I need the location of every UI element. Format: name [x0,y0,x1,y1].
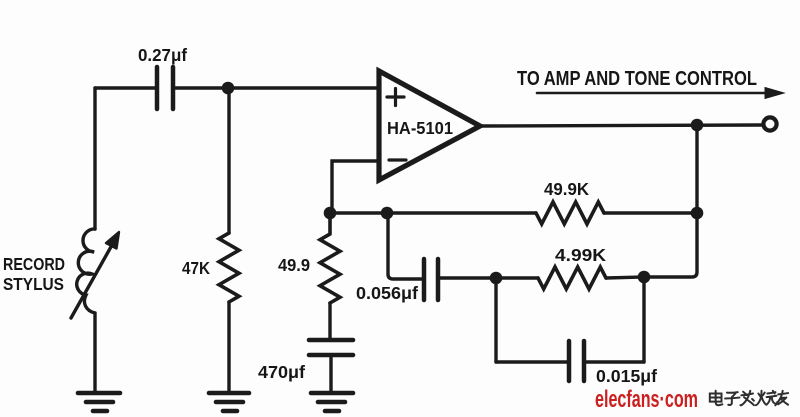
capacitor C2 470uf plates [309,340,353,355]
ground G3 under 470uf [311,393,353,411]
svg-text:0.015μf: 0.015μf [596,366,657,386]
svg-text:470μf: 470μf [258,362,305,382]
wire: 0.056uf cap to 4.99K [439,276,538,279]
capacitor C1 0.27uf plates [157,67,173,109]
wire: minus input to feedback node [332,161,379,213]
resistor R4 4.99K horizontal zigzag [538,267,606,289]
wire: feedback rail y=213 [330,211,536,214]
svg-text:0.27μf: 0.27μf [138,45,187,65]
wire: 49.9K to right vertical [604,211,697,214]
svg-text:elecfans·com: elecfans·com [595,386,698,413]
wire: 0.015uf branch bottom left [496,360,567,363]
wire: 0.015uf branch left vertical [494,278,497,362]
ground G1 under stylus [78,393,120,411]
capacitor C4 0.015uf plates [569,341,584,381]
node: feedback right [691,207,704,220]
wire: top rail y=88 left of capacitor [95,86,156,89]
wire: tap down to 0.056uf cap [388,213,422,279]
node: 4.99K right [638,271,651,284]
svg-text:4.99K: 4.99K [555,245,606,265]
wire: top rail y=88 right of capacitor to op-amp + input [174,86,379,89]
stylus arrow [71,245,112,318]
op-amp plus sign [387,89,404,106]
resistor R3 49.9 vertical zigzag [320,213,340,303]
record stylus coil symbol [77,229,95,313]
svg-text:TO AMP AND TONE CONTROL: TO AMP AND TONE CONTROL [517,68,757,90]
wire: 49.9 to 470uf cap [328,303,331,338]
wire: left vertical from top rail to stylus [93,88,96,229]
output terminal circle [763,117,776,130]
wire: 470uf to ground [329,355,332,392]
resistor R1 47K vertical zigzag [219,233,239,302]
svg-text:49.9K: 49.9K [544,179,589,199]
wire: stylus to ground [93,313,96,392]
node: tap junction [381,207,394,220]
node: 4.99K left [490,272,503,285]
wire: 0.015uf branch bottom right [585,360,644,363]
wire: right vertical from output down to 4.99K branch [644,125,697,277]
watermark chinese characters [710,391,788,406]
wire: 47K branch bottom [227,302,230,392]
node: output junction [691,119,704,132]
node junction J1 [222,82,235,95]
svg-text:RECORD: RECORD [3,254,65,274]
capacitor C3 0.056uf plates [424,259,438,300]
arrow under label [537,92,770,95]
wire: 4.99K right to node [606,277,644,278]
ground G2 under 47K [209,393,249,411]
resistor R2 49.9K horizontal zigzag [536,202,604,224]
op-amp minus sign [389,158,406,161]
svg-text:HA-5101: HA-5101 [387,118,453,138]
svg-text:49.9: 49.9 [278,255,310,275]
svg-text:0.056μf: 0.056μf [356,283,418,303]
wire: 47K branch top [227,88,230,233]
node: feedback left [324,207,337,220]
wire: op-amp output to terminal [479,125,762,126]
svg-text:47K: 47K [182,258,210,278]
op-amp U1 HA-5101 triangle [379,71,480,180]
svg-text:STYLUS: STYLUS [3,274,64,294]
wire: 0.015uf branch right vertical [642,277,645,362]
